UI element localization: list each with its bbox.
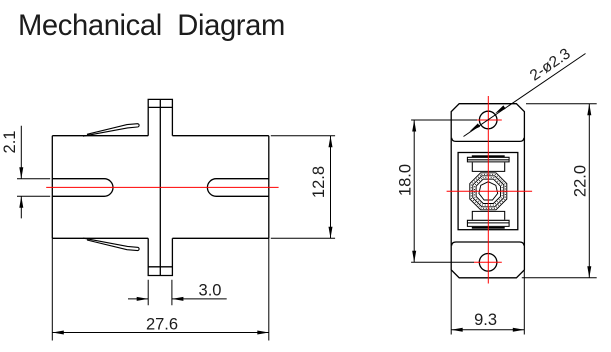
housing bottom wide bar [467,220,509,226]
red vertical centerline (front view) [487,96,489,284]
housing bottom neck [472,211,504,219]
housing top neck [472,162,504,171]
crease line upper [452,138,524,142]
red crosshair top hole [476,119,502,121]
mounting hole top [479,111,497,129]
octagon hatch ring B [475,178,503,206]
mounting hole bottom [479,253,497,271]
svg-text:Mechanical Diagram: Mechanical Diagram [18,10,285,42]
dimension 18.0 [411,120,477,262]
housing bottom cap strip [472,227,505,229]
bottom latch clip [83,238,139,251]
dimension 22.0 [522,104,597,278]
flange tab top (side view) [148,99,172,135]
leader line 2-phi2.3 [464,54,586,137]
svg-text:18.0: 18.0 [397,164,415,196]
svg-text:3.0: 3.0 [199,281,222,299]
flange tab bottom (side view) [148,238,172,275]
octagon hatch ring A [471,174,505,208]
dimension 27.6 [52,238,268,340]
octagon middle [473,176,504,207]
flange outline with chamfered corners [451,104,524,278]
svg-text:12.8: 12.8 [310,166,328,198]
ferrule bore heptagon [479,182,498,200]
svg-text:2-ø2.3: 2-ø2.3 [527,45,574,84]
housing top cap strip [472,155,505,157]
flange center line (side view) [159,99,161,275]
ferrule sleeve octagon rings [470,173,507,210]
svg-text:2.1: 2.1 [1,131,19,154]
octagon outer [470,173,507,210]
red centerline (side view) [46,186,278,188]
dimension 9.3 [451,270,524,334]
dimension 3.0 [128,280,227,306]
top latch clip [83,124,139,137]
SC housing rect [458,153,518,230]
dimension 12.8 [271,136,335,239]
octagon inner [476,179,500,203]
leader arrow outer [468,123,480,133]
right slot [207,179,268,197]
leader arrow at hole edge [494,105,506,115]
red horizontal centerline (front view) [447,190,532,192]
red crosshair bottom hole [474,261,502,263]
left slot [52,179,113,197]
crease line lower [452,242,524,246]
housing top wide bar [467,157,509,162]
svg-text:9.3: 9.3 [474,311,497,329]
svg-text:22.0: 22.0 [571,165,589,197]
body outline (side view) [52,136,268,239]
dimension 2.1 [17,126,50,219]
svg-text:27.6: 27.6 [146,316,178,334]
